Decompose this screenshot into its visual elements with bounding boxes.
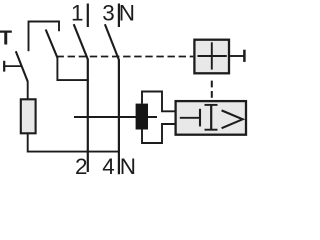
CT core xyxy=(136,104,148,130)
svg-text:1: 1 xyxy=(71,0,84,25)
relay threshold symbol xyxy=(222,110,243,128)
trip coil terminal tick xyxy=(243,50,246,62)
test button push rod xyxy=(3,65,22,67)
relay armature I xyxy=(210,105,212,130)
test button actuator tick xyxy=(3,61,5,72)
CT primary line xyxy=(74,116,157,118)
svg-text:4: 4 xyxy=(102,154,115,178)
relay box xyxy=(176,101,246,135)
trip coil box xyxy=(194,40,229,74)
CT secondary bottom loop xyxy=(142,124,176,143)
CT secondary top loop xyxy=(142,92,176,112)
trip coil cross horizontal xyxy=(198,55,227,57)
svg-text:N: N xyxy=(120,154,136,178)
mechanical linkage dashed vertical xyxy=(211,81,213,100)
resistor R test xyxy=(21,99,36,133)
svg-text:2: 2 xyxy=(75,154,88,178)
relay winding symbol xyxy=(180,117,200,119)
auxiliary test contact blade xyxy=(46,30,58,58)
wire resistor to neutral conductor xyxy=(28,133,119,151)
svg-text:T: T xyxy=(0,26,13,49)
test contact blade xyxy=(16,51,28,81)
wire aux contact to pole 1 xyxy=(57,57,88,80)
svg-text:3: 3 xyxy=(102,0,115,25)
terminal stub 1 xyxy=(87,4,89,28)
neutral lower conductor xyxy=(118,60,120,175)
neutral pole contact blade xyxy=(105,24,119,60)
trip coil cross vertical xyxy=(211,42,213,69)
pole 1 contact blade xyxy=(74,24,88,59)
pole 1 lower conductor xyxy=(87,59,89,172)
test contact fixed stub xyxy=(28,21,30,52)
trip coil output wire xyxy=(230,55,245,57)
svg-text:N: N xyxy=(119,0,135,25)
test circuit top wire bracket xyxy=(29,22,60,32)
terminal stub 3N xyxy=(118,4,120,28)
wire test blade to resistor xyxy=(27,81,29,100)
mechanical linkage dashed horizontal xyxy=(57,56,194,58)
